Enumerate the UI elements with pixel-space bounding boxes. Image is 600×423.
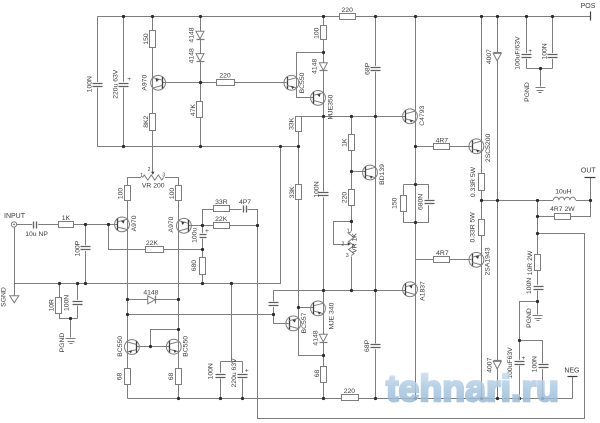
- resistor R10R: [49, 298, 62, 314]
- svg-text:220: 220: [344, 388, 356, 395]
- wire zobel 150/680N box: [404, 185, 429, 223]
- wire NEG terminal drop: [572, 377, 574, 399]
- ground PGND input: [59, 333, 76, 353]
- wire top PSU 100N branch: [552, 17, 554, 69]
- svg-text:68: 68: [314, 370, 321, 378]
- wire 100u/680 column: [202, 226, 204, 284]
- wire input wire: [17, 224, 118, 226]
- junction mid rail / 47K: [199, 145, 202, 148]
- svg-text:100: 100: [313, 27, 320, 39]
- junction VAS out / 1K: [350, 115, 353, 118]
- junction pos rail / 100N: [551, 15, 554, 18]
- wire top PSU 100uF branch: [526, 17, 528, 69]
- capacitor C220u top left: [112, 69, 131, 99]
- junction zobel box top: [414, 183, 417, 186]
- svg-text:680: 680: [191, 260, 198, 272]
- diode D4148 mje350: [311, 59, 327, 74]
- svg-text:2SA1943: 2SA1943: [485, 247, 492, 275]
- wire mid rail: [98, 146, 299, 148]
- wire output rail: [482, 200, 554, 202]
- wire OUT terminal drop: [590, 178, 592, 201]
- wire PGND tap to bottom PSU caps: [520, 302, 538, 399]
- svg-text:SGND: SGND: [1, 287, 8, 307]
- svg-text:47K: 47K: [190, 104, 197, 117]
- junction sgnd / 100P: [84, 282, 87, 285]
- wire output devices column: [481, 17, 483, 399]
- wire bottom PSU 100N branch: [520, 341, 543, 399]
- capacitor C100N top left: [87, 76, 103, 92]
- wire top PSU cap bottoms: [527, 68, 553, 70]
- resistor R150 zobel: [391, 196, 406, 212]
- wire POS rail: [98, 16, 591, 18]
- svg-text:22K: 22K: [146, 240, 159, 247]
- wire 4007 protection column: [497, 17, 499, 399]
- transistor Q MJE340: [311, 301, 336, 329]
- junction bottom psu node: [518, 339, 521, 342]
- transistor Q A1837: [403, 281, 427, 301]
- junction zobel PGND node: [536, 300, 539, 303]
- transistor Q 2SC5200: [469, 134, 492, 163]
- ground PGND top psu: [524, 82, 546, 102]
- wire input PGND stub: [70, 319, 72, 338]
- resistor R150: [143, 31, 155, 48]
- transistor Q BC550 bottom left: [117, 336, 139, 357]
- junction neg rail / 4007: [496, 397, 499, 400]
- junction VR1K top node: [350, 220, 353, 223]
- resistor R220 top: [340, 7, 356, 19]
- junction output / OUT: [589, 199, 592, 202]
- svg-text:VR 200: VR 200: [142, 182, 165, 189]
- svg-text:68P: 68P: [364, 62, 371, 75]
- wire 10R branch: [60, 284, 78, 319]
- resistor R33K upper: [289, 117, 302, 132]
- wire output zobel column: [537, 201, 539, 315]
- svg-text:+: +: [205, 228, 209, 235]
- svg-text:100N: 100N: [542, 43, 549, 59]
- junction 22K tail node: [201, 248, 204, 251]
- junction zobel / feedback: [536, 232, 539, 235]
- capacitor C100N input: [63, 295, 82, 311]
- capacitor C100uF top psu: [515, 36, 533, 70]
- resistor R4R7 lower: [434, 250, 450, 263]
- capacitor C100u: [191, 228, 209, 243]
- capacitor C68P upper: [364, 62, 380, 75]
- capacitor C100N zobel: [526, 278, 544, 294]
- wire 33R/4P7 feedback arm: [203, 210, 258, 226]
- diode D4007 bottom: [486, 357, 501, 372]
- wire decoupling split: [221, 361, 243, 363]
- junction pos rail / 2SC5200: [480, 15, 483, 18]
- svg-text:+: +: [528, 48, 532, 55]
- svg-text:220: 220: [219, 73, 231, 80]
- svg-text:BC557: BC557: [301, 312, 308, 333]
- terminal NEG: [564, 367, 579, 376]
- wire output rail after inductor: [576, 200, 591, 202]
- resistor R1K vas: [341, 135, 354, 151]
- svg-text:33K: 33K: [289, 117, 296, 130]
- junction A1837 base / VR1K: [350, 289, 353, 292]
- diode D4007 top: [486, 49, 501, 64]
- resistor R100 top: [313, 26, 326, 40]
- junction MJE340 base node: [297, 306, 300, 309]
- svg-text:BD139: BD139: [379, 164, 386, 185]
- svg-text:2: 2: [148, 167, 151, 173]
- svg-text:100N: 100N: [526, 278, 533, 294]
- resistor R0.33R upper: [470, 166, 484, 197]
- wire SGND rail: [15, 147, 281, 284]
- wire SGND stub: [14, 284, 16, 296]
- junction output / 0.33R: [480, 199, 483, 202]
- wire VAS column x323: [323, 17, 325, 399]
- transistor Q BD139: [363, 164, 387, 185]
- capacitor C100uF bottom psu: [507, 347, 525, 379]
- junction neg rail / 100N psu: [541, 397, 544, 400]
- svg-text:BC550: BC550: [299, 72, 306, 93]
- svg-text:68: 68: [117, 373, 124, 381]
- svg-text:tehnari.ru: tehnari.ru: [386, 367, 559, 409]
- svg-text:BC550: BC550: [117, 336, 124, 357]
- resistor R68 mid: [314, 367, 327, 383]
- junction neg rail / 100N: [219, 397, 222, 400]
- resistor R680: [191, 258, 205, 275]
- resistor R220 vas: [341, 190, 354, 206]
- svg-text:150: 150: [143, 33, 150, 45]
- svg-text:4148: 4148: [311, 59, 318, 74]
- svg-text:POS: POS: [581, 3, 596, 10]
- junction zobel box bottom: [414, 221, 417, 224]
- capacitor C100P: [74, 240, 90, 256]
- svg-text:100N: 100N: [63, 295, 70, 311]
- wire NEG rail: [128, 398, 573, 400]
- transistor Q 2SA1943: [469, 247, 492, 275]
- junction input / 22K: [107, 223, 110, 226]
- terminal POS: [581, 3, 596, 21]
- wire 33K column to BC557: [299, 147, 324, 356]
- svg-text:4P7: 4P7: [239, 199, 251, 206]
- resistor R68 left: [117, 369, 131, 385]
- ground PGND zobel: [526, 308, 542, 328]
- resistor R0.33R lower: [470, 212, 485, 243]
- inductor L1 10uH: [553, 188, 576, 201]
- junction neg rail / 68R: [177, 397, 180, 400]
- svg-text:INPUT: INPUT: [4, 213, 26, 220]
- resistor R220 upper left: [217, 73, 235, 86]
- wire BC550 pair base link: [137, 346, 170, 348]
- wire 22K feedback arm: [203, 225, 258, 227]
- wire BC557 base feed wire: [128, 314, 274, 316]
- resistor R4R7 2W: [550, 206, 575, 219]
- junction pos rail / 68P: [374, 15, 377, 18]
- svg-text:PGND: PGND: [524, 82, 531, 102]
- terminal OUT: [581, 167, 597, 177]
- svg-text:A970: A970: [168, 216, 175, 232]
- svg-text:10R: 10R: [49, 299, 56, 312]
- junction BC557 feed right: [272, 313, 275, 316]
- diode D4148 bias 1: [189, 27, 205, 42]
- junction pos rail / diodes: [199, 15, 202, 18]
- junction clamp anode: [126, 298, 129, 301]
- junction neg rail / BD139: [374, 397, 377, 400]
- wire 68P / BD139 column: [375, 17, 377, 399]
- svg-text:33R: 33R: [215, 199, 228, 206]
- junction sgnd / 680: [201, 282, 204, 285]
- transistor Q C4793: [403, 105, 427, 125]
- wire 4R7 2W parallel path: [538, 201, 591, 217]
- svg-text:3: 3: [162, 173, 165, 179]
- junction BC557 feed left: [126, 313, 129, 316]
- wire A970 right base: [189, 225, 203, 227]
- terminal INPUT: [4, 213, 26, 227]
- junction pos rail / 100uF: [525, 15, 528, 18]
- junction A1837 base / VAS col: [322, 289, 325, 292]
- svg-text:4R7 2W: 4R7 2W: [550, 206, 575, 213]
- svg-text:4R7: 4R7: [436, 250, 449, 257]
- svg-text:100N: 100N: [207, 363, 214, 379]
- capacitor C68P lower: [364, 339, 381, 352]
- resistor R22K tail: [146, 240, 164, 253]
- svg-text:220u 63V: 220u 63V: [231, 358, 238, 388]
- junction mid rail / 33K: [297, 145, 300, 148]
- svg-text:NEG: NEG: [564, 367, 579, 374]
- resistor R220 bottom: [342, 388, 359, 400]
- svg-text:2SC5200: 2SC5200: [485, 134, 492, 163]
- diode D4148 mje340: [312, 330, 327, 345]
- svg-text:220: 220: [342, 7, 354, 14]
- junction pos rail / 4007: [496, 15, 499, 18]
- transistor Q BC557: [286, 312, 308, 333]
- wire C4793 / A1837 column: [415, 17, 417, 399]
- svg-text:C4793: C4793: [419, 105, 426, 125]
- svg-text:10uH: 10uH: [555, 188, 571, 195]
- junction zobel / 4R7 2W: [536, 215, 539, 218]
- capacitor C100N bottom psu: [532, 356, 549, 372]
- svg-text:MJE 340: MJE 340: [329, 302, 336, 329]
- svg-text:10R 2W: 10R 2W: [527, 250, 534, 275]
- svg-text:100uF/63V: 100uF/63V: [515, 36, 522, 70]
- svg-text:100N: 100N: [314, 181, 321, 197]
- capacitor C4P7: [239, 199, 251, 213]
- svg-text:1K: 1K: [62, 215, 71, 222]
- svg-text:+: +: [127, 76, 131, 83]
- resistor R10R 2W: [527, 250, 541, 275]
- wire diode chain / 47K column: [200, 17, 202, 147]
- junction BC550 collector node: [322, 51, 325, 54]
- capacitor C bc557 base: [268, 301, 279, 307]
- svg-text:100: 100: [169, 188, 176, 200]
- svg-text:22K: 22K: [215, 216, 228, 223]
- wire A970 top base to BC550 base: [163, 82, 287, 84]
- junction output / 4007: [496, 199, 499, 202]
- junction VAS out / BD139: [374, 115, 377, 118]
- junction diode-47K node: [199, 81, 202, 84]
- wire 4R7 lower drive wire: [416, 259, 472, 261]
- svg-text:100: 100: [117, 188, 124, 200]
- svg-text:A970: A970: [142, 75, 149, 91]
- junction BC550 bases: [149, 345, 152, 348]
- svg-text:100N: 100N: [87, 76, 94, 92]
- wire A1837 base wire: [274, 290, 406, 292]
- transistor Q BC550 bottom right: [166, 336, 189, 357]
- svg-text:PGND: PGND: [59, 333, 66, 353]
- svg-text:MJE350: MJE350: [327, 94, 334, 119]
- junction neg rail / 1943: [480, 397, 483, 400]
- svg-text:BC550: BC550: [183, 336, 190, 357]
- junction pos rail / 150: [151, 15, 154, 18]
- junction pos rail / 100: [322, 15, 325, 18]
- svg-text:150: 150: [391, 197, 398, 209]
- svg-text:1: 1: [140, 173, 143, 179]
- junction BC557 emitter node: [322, 354, 325, 357]
- wire 100N decoupling branch: [220, 362, 222, 399]
- resistor R33K lower: [289, 185, 301, 200]
- svg-text:+: +: [245, 368, 249, 375]
- svg-text:4007: 4007: [486, 49, 493, 64]
- junction neg rail / A1837: [414, 397, 417, 400]
- junction pos rail / C4793: [414, 15, 417, 18]
- junction BD139 base node: [350, 170, 353, 173]
- junction sgnd / decoupling: [230, 282, 233, 285]
- wire MJE340 base wire: [299, 307, 314, 309]
- svg-text:A1837: A1837: [420, 281, 427, 301]
- svg-text:1K: 1K: [341, 138, 348, 147]
- wire 4R7 upper drive wire: [416, 146, 472, 148]
- svg-text:4148: 4148: [312, 330, 319, 345]
- svg-text:A970: A970: [131, 215, 138, 231]
- svg-text:8K2: 8K2: [143, 115, 150, 127]
- transistor Q A970 right: [168, 216, 191, 233]
- capacitor C100N top psu: [542, 43, 558, 59]
- capacitor C100N decoupling: [207, 363, 225, 379]
- ground SGND: [1, 287, 19, 307]
- svg-text:100P: 100P: [74, 240, 81, 256]
- wire 1K/220/VR1K column: [351, 117, 353, 291]
- wire 150/A970/8K2 column: [152, 17, 154, 171]
- resistor R100 left: [117, 186, 130, 201]
- svg-text:220u 63V: 220u 63V: [112, 69, 119, 99]
- resistor R4R7 upper: [434, 138, 450, 150]
- junction pos rail / 220u: [122, 15, 125, 18]
- junction top psu PGND: [539, 67, 542, 70]
- svg-text:+: +: [522, 355, 526, 362]
- svg-text:3: 3: [346, 253, 349, 259]
- svg-text:33K: 33K: [289, 186, 296, 199]
- svg-text:0.33R 5W: 0.33R 5W: [470, 166, 477, 197]
- wire 22K tail wire: [109, 225, 203, 250]
- junction neg rail / 100uF: [518, 397, 521, 400]
- junction A1837 base / BD139: [374, 289, 377, 292]
- wire BC550 base-collector bridge: [151, 330, 179, 347]
- junction neg rail / 220u: [241, 397, 244, 400]
- wire left 100N cap branch: [97, 17, 99, 147]
- svg-text:VR 1K: VR 1K: [351, 233, 358, 253]
- capacitor C220u decoupling: [231, 358, 249, 388]
- junction clamp cathode: [177, 298, 180, 301]
- resistor R33R: [214, 199, 230, 212]
- junction VAS out / MJE350: [322, 115, 325, 118]
- resistor R22K fb: [214, 216, 230, 229]
- wire VR1K wiper loop: [334, 222, 352, 245]
- svg-text:PGND: PGND: [526, 308, 533, 328]
- wire BD139 base wire: [352, 171, 366, 173]
- svg-text:2: 2: [342, 242, 345, 248]
- wire left 220u cap branch: [123, 17, 125, 147]
- wire VAS output rail y116: [299, 117, 406, 147]
- svg-text:0.33R 5W: 0.33R 5W: [470, 212, 477, 243]
- svg-text:4R7: 4R7: [436, 138, 449, 145]
- junction sgnd / 100N: [76, 282, 79, 285]
- junction output / zobel: [536, 199, 539, 202]
- resistor R8K2: [143, 114, 156, 131]
- junction A970r base node: [201, 224, 204, 227]
- wire top PGND stub: [540, 69, 542, 87]
- resistor R47K: [190, 102, 202, 118]
- svg-text:4148: 4148: [189, 48, 196, 63]
- capacitor C680N zobel: [418, 194, 435, 210]
- wire VR200 left arm to BC550 column: [128, 178, 143, 399]
- wire input 100N branch: [77, 284, 79, 319]
- junction C4793 emitter node: [414, 145, 417, 148]
- resistor R68 right: [168, 369, 181, 385]
- junction input PGND node: [69, 317, 72, 320]
- wire VR200 right arm to BC550 column: [164, 178, 179, 399]
- junction BC550 bridge: [177, 328, 180, 331]
- wire 4148 clamp wire: [128, 299, 179, 301]
- svg-text:68P: 68P: [364, 339, 371, 352]
- transistor Q BC550 top: [284, 72, 306, 93]
- resistor R1K input: [59, 215, 74, 228]
- wire BC557 base drop: [274, 291, 289, 324]
- svg-text:OUT: OUT: [581, 167, 597, 174]
- svg-text:220: 220: [341, 192, 348, 204]
- svg-text:10u NP: 10u NP: [25, 231, 48, 238]
- wire feedback loop: [258, 210, 585, 419]
- resistor R100 right: [169, 186, 182, 201]
- junction mid rail / 220u: [122, 145, 125, 148]
- junction sgnd / 10R: [58, 282, 61, 285]
- junction neg rail / 68M: [322, 397, 325, 400]
- potentiometer VR1K: [342, 228, 359, 259]
- potentiometer VR200: [140, 167, 165, 189]
- svg-text:680N: 680N: [418, 194, 425, 210]
- wire decoupling drop x231: [231, 284, 233, 362]
- transistor Q A970 left: [115, 215, 139, 232]
- diode D4148 bias 2: [189, 48, 205, 63]
- wire 220u decoupling branch: [242, 362, 244, 399]
- wire 100P branch: [85, 225, 87, 284]
- capacitor C100N vas: [314, 181, 329, 197]
- svg-text:4148: 4148: [189, 27, 196, 42]
- diode D4148 clamp: [143, 290, 158, 304]
- junction feedback top node: [256, 224, 259, 227]
- svg-text:100u: 100u: [191, 228, 198, 243]
- junction input / 100P: [84, 223, 87, 226]
- transistor Q A970 top: [142, 75, 166, 91]
- transistor Q MJE350: [311, 91, 335, 120]
- wire BC550 collector / MJE350 base link: [297, 53, 324, 98]
- svg-text:4148: 4148: [143, 290, 158, 297]
- junction mid rail / riser: [279, 145, 282, 148]
- wire input jack ground drop: [14, 228, 16, 284]
- capacitor C10u NP input: [25, 221, 48, 238]
- svg-text:1: 1: [347, 228, 350, 234]
- svg-text:68: 68: [168, 373, 175, 381]
